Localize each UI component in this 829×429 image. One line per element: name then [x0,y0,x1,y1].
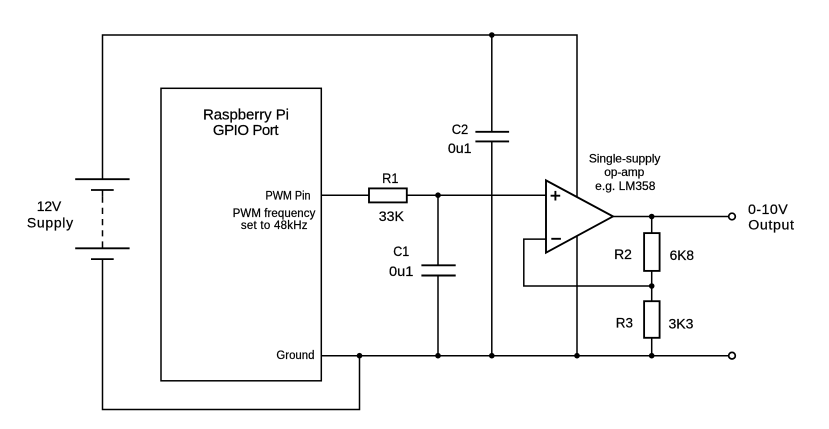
wire R3 bottom lead [651,338,653,356]
junction C2 on ground rail [489,353,495,359]
wire R1 to op-amp noninverting input [407,194,546,196]
junction C2 top on supply rail [489,32,495,38]
svg-text:PWM Pin: PWM Pin [266,191,311,203]
svg-text:0u1: 0u1 [448,140,472,156]
capacitor C1 [421,265,455,275]
label 0-10V Output [748,202,794,234]
wire battery negative return to ground rail [103,259,360,409]
label 12V Supply [27,198,73,231]
resistor R1 [369,188,407,202]
Raspberry Pi GPIO Port box [161,88,321,381]
svg-text:0-10V: 0-10V [748,202,788,218]
op-amp U1 [546,180,613,252]
svg-text:set to 48kHz: set to 48kHz [241,220,308,232]
svg-text:R1: R1 [382,170,398,186]
svg-text:3K3: 3K3 [669,316,694,332]
wire top supply rail from battery positive to op-amp V+ [103,35,578,197]
wire C1 top lead [437,195,439,265]
svg-text:e.g. LM358: e.g. LM358 [595,179,656,193]
wire R2 top lead [651,217,653,234]
svg-text:C2: C2 [452,121,469,137]
wire PWM pin to R1 [322,194,369,196]
svg-text:Ground: Ground [276,350,314,362]
junction output / R2 top [649,214,655,220]
wire C1 bottom lead [437,276,439,356]
battery 12V supply [75,179,129,259]
svg-text:Supply: Supply [27,215,73,231]
label PWM frequency set to 48kHz [233,208,316,232]
svg-text:op-amp: op-amp [604,165,644,179]
label Raspberry Pi GPIO Port [203,106,289,139]
svg-text:GPIO Port: GPIO Port [213,122,279,139]
output terminal [729,213,736,220]
junction op-amp supply on ground rail [574,353,580,359]
wire ground rail [322,355,729,357]
junction R1 output / C1 node [435,192,441,198]
svg-text:PWM frequency: PWM frequency [233,208,316,220]
junction ground riser on ground rail [357,353,363,359]
wire C2 top lead [491,35,493,132]
wire op-amp output [613,216,729,218]
svg-text:Output: Output [748,218,794,234]
wire R2 bottom to R3 top [651,271,653,301]
wire feedback from inverting input to divider node [524,239,652,286]
resistor R2 [644,233,660,271]
junction C1 on ground rail [435,353,441,359]
junction feedback at R2/R3 divider [649,283,655,289]
svg-text:12V: 12V [37,198,62,214]
svg-text:Single-supply: Single-supply [589,151,661,165]
junction R3 on ground rail [649,353,655,359]
svg-text:6K8: 6K8 [670,247,695,263]
capacitor C2 [475,132,509,142]
ground terminal [729,352,736,359]
svg-text:R2: R2 [614,246,632,262]
resistor R3 [644,301,660,338]
svg-text:33K: 33K [379,208,405,224]
svg-text:0u1: 0u1 [389,263,414,279]
label Single-supply op-amp e.g. LM358 [589,151,661,193]
svg-text:C1: C1 [393,243,409,259]
wire op-amp negative supply to ground [576,237,578,356]
svg-text:R3: R3 [616,315,633,331]
wire C2 bottom lead [491,141,493,355]
svg-text:Raspberry Pi: Raspberry Pi [203,106,289,123]
